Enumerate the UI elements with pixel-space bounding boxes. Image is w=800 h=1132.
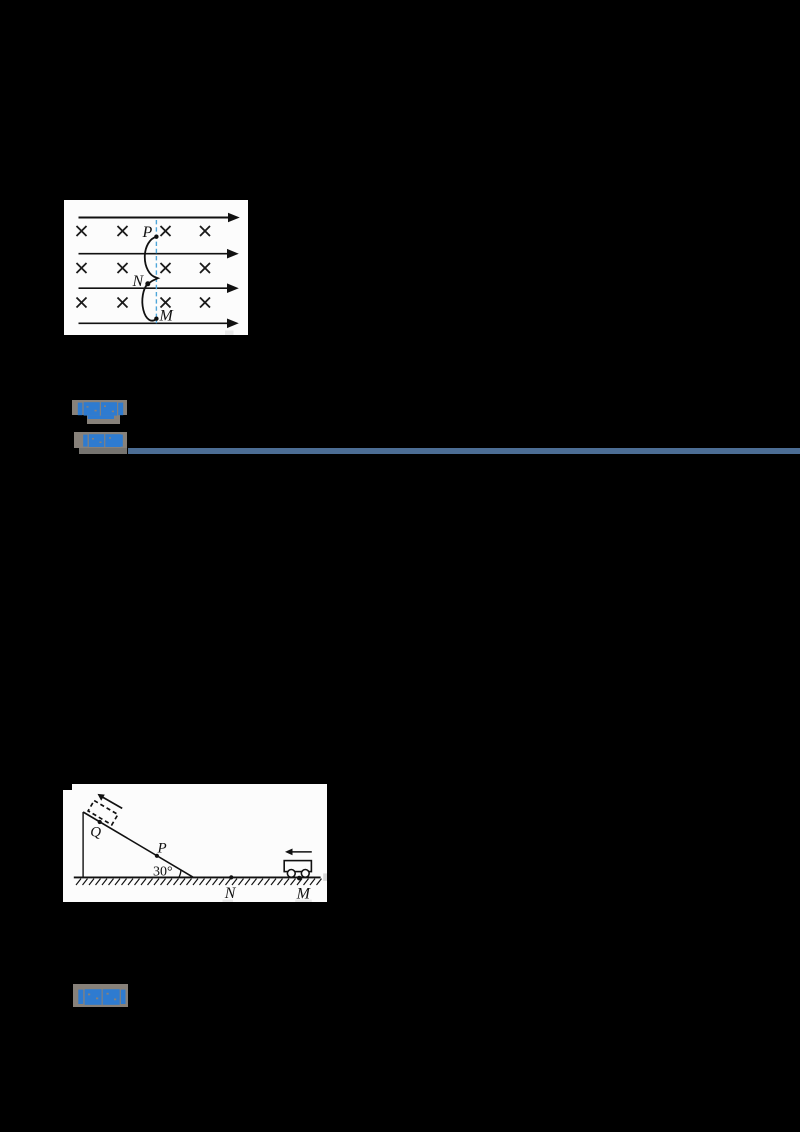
svg-text:P: P [141,223,152,240]
answer label 3 highlight [73,984,128,1007]
figure 1 white background [64,200,249,335]
horizontal rule blue segment [128,448,800,454]
x marks row 3 [76,297,209,307]
point N [229,875,233,879]
trajectory arc P to N [144,236,157,283]
watermark under M [295,899,312,902]
svg-text:30°: 30° [153,864,173,879]
ground line [74,876,321,878]
answer label 1 blue text [72,400,128,424]
dashed block Q [88,800,118,824]
point P [154,234,158,238]
dashed guide line [155,220,157,323]
svg-text:M: M [296,885,312,902]
trajectory arc N to M [142,283,156,320]
field line 4 [78,318,238,328]
svg-text:P: P [157,840,167,856]
field line 1 [78,212,239,222]
cart wheel left [288,869,296,877]
corner notch [63,784,72,790]
incline vertical side [82,811,84,876]
watermark under N [223,899,233,902]
cart wheel right [302,869,310,877]
angle arc [179,869,181,877]
figure 1: magnetic field region diagram [64,200,249,336]
answer label 2 blue text [74,432,127,449]
point M [297,875,302,880]
point M [154,316,158,320]
ground hatching [76,878,321,884]
answer label 1 sub highlight [87,415,120,423]
answer label 3 blue text [73,984,128,1007]
figure 2 white background [63,784,327,903]
field line 2 [78,248,238,258]
answer label 1 highlight [72,400,128,416]
x marks row 1 [76,226,209,236]
arrow above cart [285,848,312,855]
cart body [284,860,311,871]
svg-text:Q: Q [90,824,101,840]
horizontal rule gray segment [79,448,128,454]
watermark square right [323,873,327,880]
point Q [98,819,102,823]
watermark remnant bottom right [224,330,232,335]
point N [145,281,150,286]
point P [155,853,159,857]
x marks row 2 [76,263,209,273]
answer label 2 highlight [74,432,126,449]
svg-text:N: N [224,884,237,901]
svg-text:N: N [131,272,144,289]
figure 2: incline and cart diagram [63,784,327,903]
svg-text:M: M [158,307,174,324]
field line 3 [78,283,238,293]
arrow up the incline [98,793,123,807]
incline hypotenuse [83,811,193,876]
